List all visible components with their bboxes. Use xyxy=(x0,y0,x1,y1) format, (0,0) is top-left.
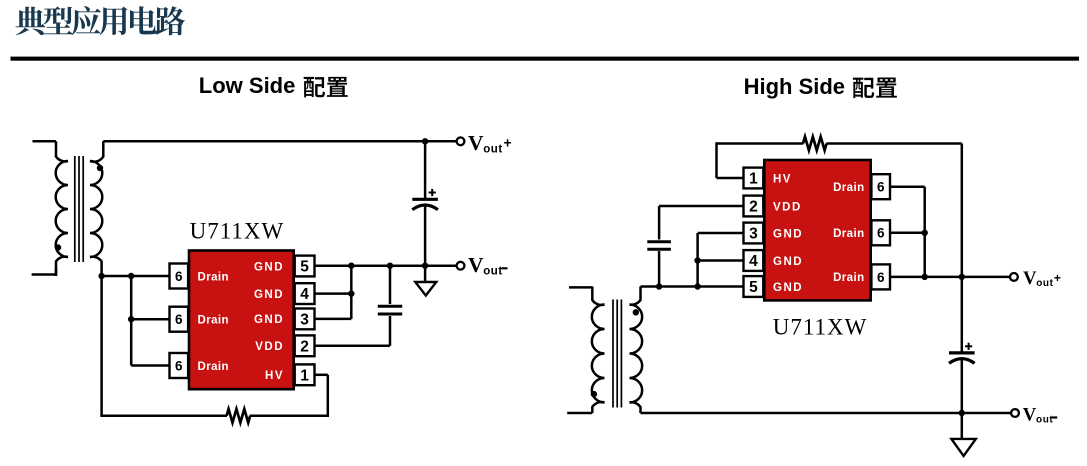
svg-text:6: 6 xyxy=(877,180,885,195)
capacitor C1 polarized (left) xyxy=(412,141,438,265)
pin 6 drain box 3 (left U1) xyxy=(170,353,189,378)
wire VDD pin2 to cap (right) xyxy=(659,206,743,240)
wire HV main vertical (right) xyxy=(961,144,964,353)
svg-text:Drain: Drain xyxy=(833,182,864,194)
node drain bus mid (right) xyxy=(922,230,928,236)
resistor R1 (left) xyxy=(227,409,251,423)
wire HV pin1 to bottom (left) xyxy=(315,375,328,417)
svg-text:5: 5 xyxy=(749,279,758,296)
node gnd bus pin4 (left) xyxy=(348,290,354,296)
wire secondary to drain bus (left) xyxy=(102,275,170,278)
wire drain pin bottom / Vout+ rail (right) xyxy=(890,276,1011,279)
ground symbol (right) xyxy=(951,413,975,456)
node gnd bus pin4 (right) xyxy=(694,257,700,263)
node drain bus bottom (right) xyxy=(922,274,928,280)
svg-text:GND: GND xyxy=(254,261,284,273)
svg-text:2: 2 xyxy=(300,338,309,355)
pin 3 box (right U2) xyxy=(744,223,764,244)
svg-text:VDD: VDD xyxy=(773,201,802,213)
wire T1 primary bottom stub xyxy=(32,273,56,276)
transformer phase dot primary xyxy=(591,391,597,397)
page title 典型应用电路 xyxy=(16,6,186,35)
svg-text:V: V xyxy=(1023,268,1037,289)
wire drain pin mid (right) xyxy=(890,232,925,235)
transformer phase dot primary xyxy=(55,244,61,250)
node drain bus junction (left) xyxy=(128,316,134,322)
pin 6 drain box 2 (right U2) xyxy=(871,220,890,245)
pin 1 box (right U2) xyxy=(744,168,764,189)
transformer primary winding xyxy=(56,161,68,257)
transformer core xyxy=(74,156,76,262)
svg-text:GND: GND xyxy=(773,256,803,268)
wire GND pin5 from transformer (right) xyxy=(641,285,744,288)
pin 5 box (right U2) xyxy=(744,276,764,297)
wire to drain pin 2nd (left) xyxy=(131,318,169,321)
wire Vout- rail (left) xyxy=(315,264,458,267)
svg-text:6: 6 xyxy=(175,312,183,327)
svg-text:1: 1 xyxy=(300,367,309,384)
node cap C3 bottom (right) xyxy=(656,283,662,289)
svg-text:4: 4 xyxy=(300,286,309,303)
wire pin3 to bus (left) xyxy=(315,318,352,321)
svg-text:out: out xyxy=(1036,278,1053,289)
svg-text:V: V xyxy=(468,253,484,277)
svg-text:HV: HV xyxy=(265,370,284,382)
svg-text:1: 1 xyxy=(749,171,758,188)
pin 4 box (right U2) xyxy=(744,250,764,271)
svg-text:Drain: Drain xyxy=(833,228,864,240)
transformer secondary winding xyxy=(90,161,102,257)
svg-text:4: 4 xyxy=(749,253,758,270)
wire drain bus vertical (left) xyxy=(131,276,169,366)
svg-text:+: + xyxy=(1054,271,1061,285)
svg-text:Drain: Drain xyxy=(198,315,229,327)
capacitor C4 polarized (right) xyxy=(949,343,975,413)
node main vertical junction (right) xyxy=(959,274,965,280)
svg-text:VDD: VDD xyxy=(255,341,284,353)
svg-text:6: 6 xyxy=(877,226,885,241)
node drain junction 1 (left) xyxy=(98,273,104,279)
wire top loop with resistor (right) xyxy=(717,142,962,178)
capacitor C2 (left) xyxy=(378,266,402,314)
node gnd bus bottom (right) xyxy=(694,283,700,289)
pin 3 box (left U1) xyxy=(295,309,315,330)
horizontal rule xyxy=(11,57,1080,61)
svg-text:Drain: Drain xyxy=(198,361,229,373)
node junction top rail (left) xyxy=(422,138,428,144)
svg-text:GND: GND xyxy=(254,289,284,301)
svg-text:out: out xyxy=(1036,415,1053,426)
pin 6 drain box 2 (left U1) xyxy=(170,307,189,332)
svg-text:3: 3 xyxy=(300,311,309,328)
wire T2 primary top stub xyxy=(569,286,592,289)
node junction rail-cap (left) xyxy=(422,263,428,269)
svg-text:2: 2 xyxy=(749,199,758,216)
transformer phase dot secondary xyxy=(633,309,639,315)
svg-text:Low Side: Low Side xyxy=(199,73,296,98)
caption High Side 配置 xyxy=(744,74,897,99)
node cap C2 top (left) xyxy=(387,263,393,269)
transformer T2 xyxy=(567,287,642,414)
transformer phase dot secondary xyxy=(97,165,103,171)
svg-text:+: + xyxy=(504,135,512,151)
wire Vout- rail (right) xyxy=(641,412,1012,415)
wire top rail to Vout+ (left) xyxy=(103,140,457,143)
terminal Vout+ (right) xyxy=(1010,273,1018,281)
wire bottom with resistor (left) xyxy=(101,415,329,418)
svg-text:6: 6 xyxy=(877,270,885,285)
wire cap C3 down (right) xyxy=(658,251,661,287)
wire left outer vertical (left) xyxy=(100,276,103,417)
resistor R2 (right) xyxy=(803,137,827,151)
svg-text:out: out xyxy=(483,265,503,277)
svg-text:U711XW: U711XW xyxy=(190,219,285,244)
pin 6 drain box 3 (right U2) xyxy=(871,264,890,289)
svg-text:High Side: High Side xyxy=(744,74,845,99)
svg-text:6: 6 xyxy=(175,358,183,373)
pin 1 box (left U1) xyxy=(295,364,315,385)
svg-text:GND: GND xyxy=(254,314,284,326)
node gnd bus top (left) xyxy=(348,263,354,269)
svg-text:U711XW: U711XW xyxy=(773,315,868,340)
transformer T1 xyxy=(32,141,104,276)
wire T1 primary top stub xyxy=(33,140,57,143)
node ground junction (right) xyxy=(959,410,965,416)
wire T2 primary bottom stub xyxy=(567,412,592,415)
svg-text:3: 3 xyxy=(749,226,758,243)
svg-text:5: 5 xyxy=(300,259,309,276)
transformer secondary winding xyxy=(630,305,643,403)
wire gnd bus vertical (left) xyxy=(350,266,353,319)
transformer primary winding xyxy=(592,305,605,403)
svg-text:GND: GND xyxy=(773,228,803,240)
transformer core xyxy=(612,300,614,408)
wire GND pin4 (right) xyxy=(698,259,744,262)
svg-text:out: out xyxy=(483,143,503,155)
wire pin4 to bus (left) xyxy=(315,292,352,295)
svg-text:HV: HV xyxy=(773,173,792,185)
IC U2 chip body (right) xyxy=(764,160,870,300)
svg-text:6: 6 xyxy=(175,269,183,284)
pin 2 box (left U1) xyxy=(295,335,315,356)
terminal Vout+ (left) xyxy=(457,137,465,145)
ground symbol (left) xyxy=(415,266,436,296)
pin 5 box (left U1) xyxy=(295,256,315,277)
capacitor C3 (right) xyxy=(647,240,671,243)
pin 6 drain box 1 (left U1) xyxy=(170,264,189,289)
terminal Vout- (right) xyxy=(1011,409,1019,417)
svg-text:V: V xyxy=(468,131,484,155)
wire GND pin3 (right) xyxy=(698,233,744,287)
caption Low Side 配置 xyxy=(199,73,348,98)
svg-text:Drain: Drain xyxy=(198,271,229,283)
pin 4 box (left U1) xyxy=(295,283,315,304)
wire cap C2 to VDD pin2 (left) xyxy=(315,316,391,346)
IC U1 chip body (left) xyxy=(189,251,294,390)
terminal Vout- (left) xyxy=(457,262,465,270)
svg-text:GND: GND xyxy=(773,282,803,294)
node drain junction 2 (left) xyxy=(128,273,134,279)
svg-text:Drain: Drain xyxy=(833,272,864,284)
wire drain pin top (right) xyxy=(890,187,925,277)
svg-text:V: V xyxy=(1023,405,1037,426)
pin 2 box (right U2) xyxy=(744,196,764,217)
pin 6 drain box 1 (right U2) xyxy=(871,174,890,199)
